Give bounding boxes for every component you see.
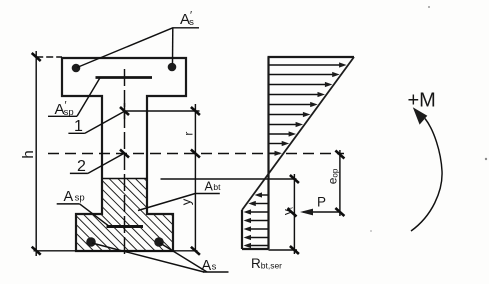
centroid dashed axis <box>48 153 344 155</box>
yt dimension line <box>281 174 299 254</box>
neutral fibre line to yt dimension <box>161 178 297 180</box>
svg-text:Abt: Abt <box>205 180 222 194</box>
tick bottom <box>191 247 200 255</box>
I-section outline <box>62 58 186 251</box>
eop dimension line <box>326 150 345 216</box>
hatch top boundary line across web <box>102 178 147 180</box>
scan speck top right <box>428 6 430 8</box>
tick at centre line <box>120 107 129 115</box>
tension block left edge <box>241 210 243 249</box>
r / y dimension line at x=195.4 <box>179 104 200 255</box>
rebar dot A's left <box>72 64 81 73</box>
svg-text:y: y <box>179 198 194 205</box>
rebar dot As right <box>154 237 164 247</box>
scan speck right edge <box>485 158 487 160</box>
rebar dot A's right <box>168 63 177 72</box>
svg-text:1: 1 <box>74 118 83 135</box>
tick yt bottom <box>290 246 299 254</box>
vertical centre line of section <box>124 69 126 257</box>
bottom dimension line <box>34 250 198 252</box>
tension block bottom edge <box>242 248 269 250</box>
svg-text:h: h <box>20 150 37 158</box>
rebar dot As left <box>86 237 96 247</box>
web dimension line at y=111 <box>120 103 200 119</box>
label As with leaders <box>92 243 229 274</box>
label 2 with leader <box>70 153 124 175</box>
tension stress arrows <box>244 192 268 248</box>
svg-text:A′s: A′s <box>180 10 194 29</box>
stress diagram: top edge <box>268 56 355 58</box>
h dimension line <box>20 51 62 256</box>
label 1 with leader <box>68 111 124 135</box>
prestressing bar A'sp <box>96 76 153 79</box>
svg-text:+M: +M <box>408 90 436 112</box>
tick h top <box>32 53 41 61</box>
tick eop bottom <box>335 208 344 216</box>
tick at axis <box>191 150 200 158</box>
bottom extension line of stress block <box>269 249 298 251</box>
tick r top <box>191 107 200 115</box>
svg-text:r: r <box>182 132 196 136</box>
tick on axis at centre line <box>120 150 129 158</box>
tick h bottom <box>32 247 41 255</box>
svg-text:2: 2 <box>77 158 86 175</box>
label Asp with leader <box>57 189 109 226</box>
force P arrow <box>288 195 340 217</box>
tick eop top <box>335 151 344 159</box>
tick yt top <box>290 175 299 183</box>
label A'sp with leader <box>48 78 100 118</box>
hatched tension zone (web strip + bottom flange) <box>76 179 173 252</box>
prestressing bar Asp <box>107 225 144 228</box>
stress diagram: hypotenuse <box>242 57 354 210</box>
stress diagram: left vertical edge <box>267 57 269 249</box>
moment arc +M <box>408 90 443 232</box>
compression stress arrows <box>270 62 347 155</box>
tick at yt line, P level <box>288 209 297 217</box>
label Abt with leader <box>138 180 221 211</box>
svg-text:P: P <box>317 195 326 210</box>
label A's with leaders <box>77 10 199 68</box>
scan speck mid <box>370 230 372 232</box>
